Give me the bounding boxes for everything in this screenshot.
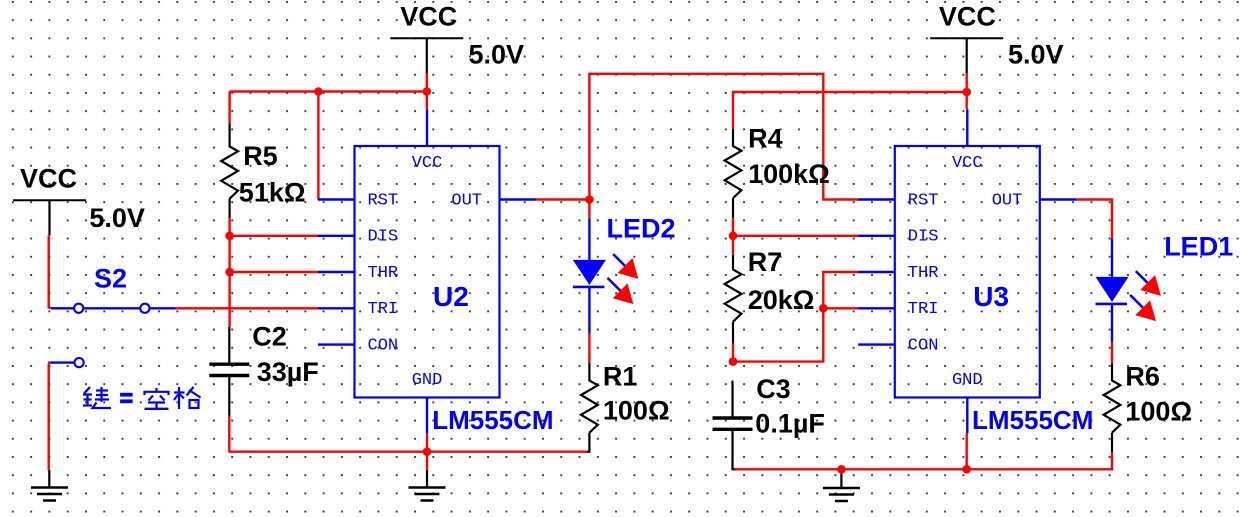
- U3 pin 5 CON stub: [858, 343, 895, 345]
- U2 pin 4 RST stub: [318, 198, 355, 200]
- node OUT2 junction: [585, 195, 594, 204]
- wire U2 GND pin to rail: [426, 433, 428, 451]
- node ground junction (right rail): [837, 465, 846, 474]
- wire R4 bottom to DIS junction: [732, 218, 734, 235]
- svg-text:VCC: VCC: [400, 1, 457, 31]
- wire RST riser: [317, 92, 319, 200]
- svg-text:51kΩ: 51kΩ: [239, 178, 306, 208]
- IC U2 LM555CM body: [355, 146, 500, 398]
- wire VCC2 stem to U3 VCC pin: [966, 74, 968, 110]
- svg-text:TRI: TRI: [368, 300, 399, 319]
- node VCC2 junction: [962, 88, 971, 97]
- capacitor C2: [228, 327, 230, 364]
- svg-text:TRI: TRI: [908, 300, 939, 319]
- svg-text:R6: R6: [1125, 361, 1160, 391]
- wire top rail (VCC net, left): [230, 90, 427, 92]
- node U3 GND junction: [962, 465, 971, 474]
- wire C3 bottom corner: [733, 467, 736, 469]
- svg-text:OUT: OUT: [992, 191, 1023, 210]
- U2 pin 5 CON stub: [318, 343, 355, 345]
- node DIS3 junction: [729, 232, 738, 241]
- U2 pin 1 GND stub: [426, 398, 428, 434]
- LED LED1 anode lead: [1111, 239, 1113, 277]
- node TRI3 junction: [819, 304, 828, 313]
- svg-text:C3: C3: [756, 374, 791, 404]
- ground (left): [31, 486, 68, 489]
- wire DIS of U2: [230, 235, 319, 237]
- LED LED2: [573, 260, 606, 285]
- U3 pin 6 THR stub: [858, 271, 895, 273]
- wire C3 node over to THR of U3: [733, 272, 858, 362]
- wire rail to ground (center-left): [426, 452, 428, 470]
- wire C2 bottom to ground rail: [227, 416, 230, 452]
- U3 pin 3 OUT stub: [1040, 198, 1077, 200]
- svg-text:U3: U3: [973, 281, 1009, 312]
- svg-text:LM555CM: LM555CM: [432, 405, 553, 435]
- LED LED1 cathode lead: [1111, 304, 1113, 342]
- svg-text:DIS: DIS: [908, 228, 939, 247]
- node THR junction on column: [225, 268, 234, 277]
- resistor R4: [725, 129, 742, 218]
- svg-text:100Ω: 100Ω: [1125, 396, 1192, 426]
- svg-text:VCC: VCC: [20, 164, 77, 194]
- resistor R6: [1104, 364, 1121, 453]
- svg-text:RST: RST: [368, 191, 399, 210]
- node DIS junction on R5 column: [225, 232, 234, 241]
- svg-text:RST: RST: [908, 191, 939, 210]
- IC U3 LM555CM body: [895, 146, 1040, 398]
- wire S2 to TRI of U2: [176, 307, 319, 309]
- svg-text:DIS: DIS: [368, 228, 399, 247]
- resistor R5: [221, 123, 238, 218]
- capacitor C3: [731, 381, 733, 418]
- svg-text:5.0V: 5.0V: [1008, 39, 1064, 69]
- LED LED2 anode lead: [588, 218, 590, 260]
- LED LED2 light arrows: [613, 254, 626, 267]
- U3 pin 1 GND stub: [966, 398, 968, 434]
- wire R7 top lead: [732, 236, 734, 255]
- svg-text:LED1: LED1: [1164, 232, 1233, 262]
- resistor R7: [725, 255, 742, 344]
- power VCC symbol (switch branch): [13, 199, 86, 201]
- ground (center-right): [823, 487, 860, 490]
- wire R6 bottom to rail: [1110, 452, 1112, 469]
- wire ground stem (center-left): [426, 470, 428, 488]
- svg-text:C2: C2: [252, 322, 287, 352]
- svg-text:R1: R1: [603, 361, 638, 391]
- switch S2: [51, 307, 74, 309]
- svg-text:LED2: LED2: [607, 214, 676, 244]
- wire bottom rail (GND net, right): [733, 468, 1112, 470]
- wire OUT2 down to LED2: [588, 200, 590, 219]
- wire VCC stem to U2 VCC pin: [426, 74, 428, 110]
- svg-text:20kΩ: 20kΩ: [748, 285, 815, 315]
- wire DIS to THR junction: [228, 236, 230, 272]
- svg-text:THR: THR: [368, 264, 399, 283]
- power VCC symbol (above U2): [390, 37, 463, 39]
- svg-text:100Ω: 100Ω: [603, 396, 670, 426]
- wire THR of U2: [230, 271, 319, 273]
- wire THR junction down to C2: [228, 272, 230, 327]
- svg-text:33µF: 33µF: [257, 357, 319, 387]
- wire OUT of U3 to LED1: [1076, 200, 1112, 239]
- U2 pin 6 THR stub: [318, 271, 355, 273]
- wire R5 bottom to DIS junction: [228, 218, 230, 236]
- svg-text:R4: R4: [748, 124, 783, 154]
- U3 pin 7 DIS stub: [858, 235, 895, 237]
- svg-text:VCC: VCC: [939, 1, 996, 31]
- wire U3 GND pin to rail: [966, 433, 968, 469]
- wire ground stem (center-right): [840, 469, 842, 474]
- LED LED1 light arrows: [1136, 271, 1149, 284]
- svg-text:100kΩ: 100kΩ: [748, 159, 830, 189]
- svg-text:R5: R5: [243, 141, 278, 171]
- wire VCC to switch common: [48, 235, 50, 308]
- svg-text:CON: CON: [908, 336, 939, 355]
- svg-text:5.0V: 5.0V: [469, 39, 525, 69]
- wire switch throw to ground: [48, 364, 50, 470]
- svg-text:LM555CM: LM555CM: [972, 405, 1093, 435]
- U2 pin 3 OUT stub: [500, 198, 537, 200]
- node VCC junction (above U2): [423, 87, 432, 96]
- wire TRI of U3: [823, 307, 858, 309]
- LED LED1: [1096, 277, 1129, 302]
- U3 pin 8 VCC stub: [966, 109, 968, 146]
- svg-text:5.0V: 5.0V: [89, 203, 145, 233]
- U2 pin 2 TRI stub: [318, 307, 355, 309]
- node GND junction under U2: [423, 447, 432, 456]
- svg-text:0.1µF: 0.1µF: [755, 408, 825, 438]
- wire R7 bottom to C3 junction: [732, 344, 734, 362]
- node RST riser junction: [314, 87, 323, 96]
- svg-text:U2: U2: [433, 281, 469, 312]
- wire A: OUT2 up-over to RST of U3: [589, 74, 858, 200]
- U3 pin 2 TRI stub: [858, 307, 895, 309]
- svg-text:VCC: VCC: [412, 154, 443, 173]
- wire DIS of U3: [733, 235, 858, 237]
- wire bottom rail (GND net, left): [229, 451, 590, 453]
- wire OUT of U2 to node: [536, 198, 589, 200]
- wire LED2 to R1: [588, 334, 590, 363]
- label key = space (键 = 空格): [84, 387, 90, 394]
- power VCC symbol (above U3): [930, 37, 1003, 39]
- svg-text:R7: R7: [748, 247, 783, 277]
- wire ground stem (left): [48, 470, 50, 488]
- svg-text:S2: S2: [94, 264, 127, 294]
- ground (center-left): [409, 486, 446, 489]
- LED LED2 cathode lead: [588, 287, 590, 334]
- wire R5 top lead: [228, 92, 230, 124]
- node R7/C3 junction: [729, 357, 738, 366]
- U2 pin 7 DIS stub: [318, 235, 355, 237]
- svg-text:GND: GND: [412, 371, 443, 390]
- wire LED1 to R6: [1111, 342, 1113, 364]
- svg-text:VCC: VCC: [952, 154, 983, 173]
- wire B: R4 top to VCC2: [733, 92, 967, 129]
- U3 pin 4 RST stub: [858, 198, 895, 200]
- svg-text:CON: CON: [368, 336, 399, 355]
- U2 pin 8 VCC stub: [426, 109, 428, 146]
- svg-text:GND: GND: [952, 371, 983, 390]
- svg-text:OUT: OUT: [451, 191, 482, 210]
- resistor R1: [581, 363, 598, 452]
- svg-text:THR: THR: [908, 264, 939, 283]
